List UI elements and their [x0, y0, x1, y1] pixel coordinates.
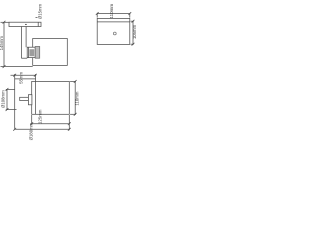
svg-text:110mm: 110mm [74, 91, 79, 105]
svg-text:145mm: 145mm [0, 36, 4, 51]
svg-text:Ø108mm: Ø108mm [0, 90, 5, 108]
svg-text:55mm: 55mm [19, 72, 24, 84]
svg-text:110mm: 110mm [109, 4, 114, 19]
svg-text:Ø180mm: Ø180mm [28, 122, 33, 140]
svg-text:Ø15mm: Ø15mm [38, 3, 43, 19]
svg-text:105mm: 105mm [132, 24, 137, 39]
svg-text:125mm: 125mm [37, 109, 42, 124]
